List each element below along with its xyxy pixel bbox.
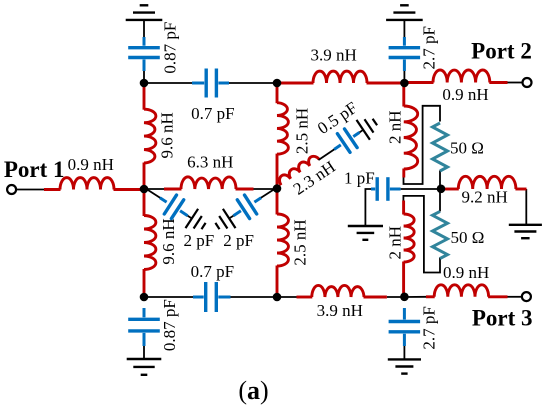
capacitor 0.7 pF (bottom) xyxy=(193,282,231,312)
resistor 50 Ohm (lower) xyxy=(433,211,448,258)
label Port 2 xyxy=(471,39,532,64)
ground (bottom right) xyxy=(388,359,421,373)
wire 9.2nH to ground xyxy=(525,189,527,225)
label 2.5 nH (upper, rot) xyxy=(293,108,312,154)
node bottom-center xyxy=(273,293,282,302)
svg-text:2 nH: 2 nH xyxy=(386,110,405,144)
wire C0.7pF to node(277,83) xyxy=(228,82,277,84)
inductor 3.9 nH (top) xyxy=(279,71,402,83)
wire C2pF to ground (left) xyxy=(188,216,192,219)
node bottom-right xyxy=(400,293,409,302)
label 9.6 nH (lower, rot) xyxy=(159,218,178,264)
wire upper resistor loop xyxy=(404,106,441,184)
label 50 Ohm (upper) xyxy=(450,138,484,157)
ground (top right, inverted) xyxy=(386,5,423,20)
svg-text:6.3 nH: 6.3 nH xyxy=(187,153,233,172)
capacitor 0.5 pF (diagonal) xyxy=(334,129,359,152)
wire Port1 to L0.9nH xyxy=(17,189,46,191)
capacitor 2 pF (right diagonal) xyxy=(233,195,261,219)
node mid-right xyxy=(437,185,446,194)
node bottom-left xyxy=(140,293,149,302)
svg-text:2.7 pF: 2.7 pF xyxy=(419,26,438,69)
label 0.5 pF (rot 45) xyxy=(314,98,361,138)
terminal Port 2 xyxy=(523,78,532,87)
ground (9.2 nH) xyxy=(509,225,542,238)
terminal Port 1 xyxy=(7,185,16,194)
wire node(144,83) to C0.7pF xyxy=(144,82,192,84)
wire upper resistor to node xyxy=(439,171,441,190)
label 0.7 pF (bottom) xyxy=(191,262,234,281)
svg-text:0.7 pF: 0.7 pF xyxy=(191,104,234,123)
svg-text:2 nH: 2 nH xyxy=(386,226,405,260)
node mid-left xyxy=(140,185,149,194)
svg-text:50 Ω: 50 Ω xyxy=(451,228,485,247)
wire cap0.87 to node (top-left) xyxy=(143,70,145,83)
wire L0.9nH to Port2 terminal xyxy=(508,82,523,84)
inductor 3.9 nH (bottom) xyxy=(297,285,387,297)
inductor 0.9 nH (Port 1 series) xyxy=(44,178,141,190)
svg-text:2.3 nH: 2.3 nH xyxy=(290,157,339,199)
inductor 9.2 nH xyxy=(443,176,527,189)
svg-text:2.5 nH: 2.5 nH xyxy=(290,219,309,265)
wire node to lower resistor xyxy=(439,189,441,211)
wire node1 to L6.3nH xyxy=(144,188,165,190)
svg-text:9.2 nH: 9.2 nH xyxy=(461,188,507,207)
label 3.9 nH (bottom) xyxy=(317,301,363,320)
inductor 2 nH (upper) xyxy=(404,85,418,178)
svg-text:9.6 nH: 9.6 nH xyxy=(157,112,176,158)
capacitor 0.87 pF (top left) xyxy=(128,37,160,71)
capacitor 2 pF (left diagonal) xyxy=(160,195,188,219)
capacitor 0.87 pF (bottom left) xyxy=(128,308,160,346)
capacitor 1 pF xyxy=(371,177,401,201)
label 3.9 nH (top) xyxy=(311,46,357,65)
label 9.2 nH xyxy=(461,188,507,207)
svg-text:2.7 pF: 2.7 pF xyxy=(419,306,438,349)
label 0.87 pF (bottom, rot) xyxy=(160,299,179,351)
svg-text:50 Ω: 50 Ω xyxy=(450,138,484,157)
label 0.9 nH (Port3) xyxy=(443,263,489,282)
node top-right xyxy=(400,79,409,88)
label 2.7 pF (bottom, rot) xyxy=(419,306,438,349)
inductor 0.9 nH (Port 2 series) xyxy=(407,70,508,83)
label 2.5 nH (lower, rot) xyxy=(290,219,309,265)
label 1 pF xyxy=(344,168,375,187)
inductor 2.3 nH (diagonal) xyxy=(280,156,320,185)
terminal Port 3 xyxy=(522,292,531,301)
label 9.6 nH (upper, rot) xyxy=(157,112,176,158)
label 0.87 pF (top, rot) xyxy=(161,22,180,74)
wire node1 to C2pF (left) xyxy=(147,190,160,199)
wire 1pF left lead corner xyxy=(365,189,373,226)
svg-text:0.9 nH: 0.9 nH xyxy=(442,85,488,104)
wire L0.9nH to Port3 terminal xyxy=(508,296,522,298)
wire C0.7pF to node(277,297) xyxy=(230,296,278,298)
wire cap2.7 to node (top-right) xyxy=(403,70,405,83)
label 2 nH (upper, rot) xyxy=(386,110,405,144)
svg-text:Port 2: Port 2 xyxy=(471,39,532,64)
label 6.3 nH xyxy=(187,153,233,172)
wire bottom-right cap to ground xyxy=(403,345,405,359)
svg-text:9.6 nH: 9.6 nH xyxy=(159,218,178,264)
label Port 3 xyxy=(472,305,533,330)
wire 1pF right to node(441,189) xyxy=(401,188,441,190)
ground (right 2 pF, tilted) xyxy=(215,209,235,229)
ground (0.5 pF, tilted) xyxy=(357,119,378,140)
label 2.3 nH (rot 45) xyxy=(290,157,339,199)
ground (top left, inverted) xyxy=(126,5,163,20)
inductor 2.5 nH (lower center) xyxy=(277,191,288,295)
resistor 50 Ohm (upper) xyxy=(433,123,448,171)
svg-text:3.9 nH: 3.9 nH xyxy=(317,301,363,320)
svg-text:0.9 nH: 0.9 nH xyxy=(443,263,489,282)
capacitor 2.7 pF (bottom right) xyxy=(389,308,421,346)
svg-text:2 pF: 2 pF xyxy=(184,231,215,250)
wire L3.9nH to node(404,297) xyxy=(387,296,405,298)
wire L2.3nH to C0.5pF xyxy=(319,149,336,160)
wire C0.5pF to ground xyxy=(360,130,364,133)
inductor 0.9 nH (Port 3 series) xyxy=(426,285,508,297)
inductor 9.6 nH (upper left shunt) xyxy=(144,85,156,187)
wire top-right ground stem xyxy=(403,20,405,37)
wire top-left ground stem xyxy=(143,20,145,37)
svg-text:2.5 nH: 2.5 nH xyxy=(293,108,312,154)
svg-text:Port 1: Port 1 xyxy=(4,157,65,182)
svg-text:Port 3: Port 3 xyxy=(472,305,533,330)
wire node(144,297) to C0.7pF bottom xyxy=(144,296,193,298)
svg-text:0.87 pF: 0.87 pF xyxy=(161,22,180,74)
ground (1 pF) xyxy=(348,226,383,240)
inductor 2.5 nH (upper center) xyxy=(277,85,288,186)
node mid-center xyxy=(273,184,282,193)
wire lower resistor loop xyxy=(403,196,440,273)
svg-text:0.7 pF: 0.7 pF xyxy=(191,262,234,281)
label (a) xyxy=(238,376,268,405)
inductor 9.6 nH (lower left shunt) xyxy=(144,191,156,295)
wire C2pF to ground (right) xyxy=(229,216,233,219)
svg-text:0.9 nH: 0.9 nH xyxy=(68,155,114,174)
label 2 pF (right) xyxy=(223,231,254,250)
wire node(404,297) to L0.9nH xyxy=(404,296,427,298)
wire bottom-left cap to ground xyxy=(143,346,145,359)
ground (bottom left) xyxy=(127,359,162,375)
svg-text:3.9 nH: 3.9 nH xyxy=(311,46,357,65)
svg-text:2 pF: 2 pF xyxy=(223,231,254,250)
label 2.7 pF (top, rot) xyxy=(419,26,438,69)
label 0.9 nH (Port1) xyxy=(68,155,114,174)
node top-left xyxy=(140,79,149,88)
ground (left 2 pF, tilted) xyxy=(186,209,206,229)
capacitor 0.7 pF (top) xyxy=(192,69,229,98)
label Port 1 xyxy=(4,157,65,182)
label 0.9 nH (Port2) xyxy=(442,85,488,104)
inductor 6.3 nH xyxy=(164,177,254,189)
label 0.7 pF (top) xyxy=(191,104,234,123)
svg-text:1 pF: 1 pF xyxy=(344,168,375,187)
inductor 2 nH (lower) xyxy=(404,201,415,295)
label 50 Ohm (lower) xyxy=(451,228,485,247)
label 2 nH (lower, rot) xyxy=(386,226,405,260)
wire L6.3nH to node2 xyxy=(253,188,277,190)
capacitor 2.7 pF (top right) xyxy=(389,37,421,71)
wire node2 to C2pF (right) xyxy=(260,190,273,199)
svg-text:(a): (a) xyxy=(238,376,268,405)
label 2 pF (left) xyxy=(184,231,215,250)
svg-text:0.87 pF: 0.87 pF xyxy=(160,299,179,351)
wire node(277,297) to L3.9nH xyxy=(277,296,297,298)
node top-center xyxy=(273,79,282,88)
